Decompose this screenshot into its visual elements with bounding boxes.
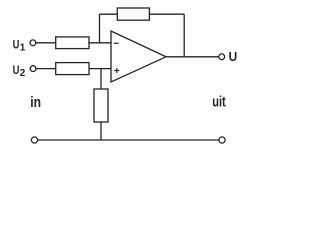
svg-text:1: 1 (20, 43, 26, 54)
wire U1 terminal to R1 (36, 42, 56, 44)
terminal U output (219, 54, 225, 60)
op-amp minus pin label (114, 42, 119, 44)
wire R4 to right corner (149, 13, 184, 15)
terminal bottom left (31, 137, 37, 143)
wire U2 terminal to R2 (36, 68, 56, 70)
terminal U2 (30, 66, 36, 72)
wire feedback right vertical to output (183, 14, 185, 57)
wire R2 to op-amp non-inverting input (89, 68, 111, 70)
wire non-inverting node down to R3 (100, 69, 102, 89)
svg-text:U: U (13, 38, 20, 52)
op-amp plus pin label (114, 70, 119, 72)
svg-text:U: U (13, 63, 20, 77)
resistor R2 (56, 63, 89, 75)
op-amp (111, 31, 166, 82)
resistor R1 (56, 37, 89, 49)
wire feedback to R4 (100, 13, 118, 15)
bottom rail wire (38, 139, 219, 141)
wire R1 to op-amp inverting input (89, 42, 111, 44)
terminal bottom right (219, 137, 225, 143)
svg-text:in: in (30, 94, 41, 111)
wire R3 to bottom rail (100, 122, 102, 140)
svg-text:2: 2 (20, 68, 26, 79)
resistor R4 feedback (117, 8, 149, 20)
resistor R3 (94, 89, 108, 122)
svg-text:uit: uit (212, 94, 226, 111)
terminal U1 (30, 40, 36, 46)
wire feedback tap vertical (99, 14, 101, 43)
output wire (166, 56, 219, 58)
svg-text:U: U (229, 49, 238, 64)
